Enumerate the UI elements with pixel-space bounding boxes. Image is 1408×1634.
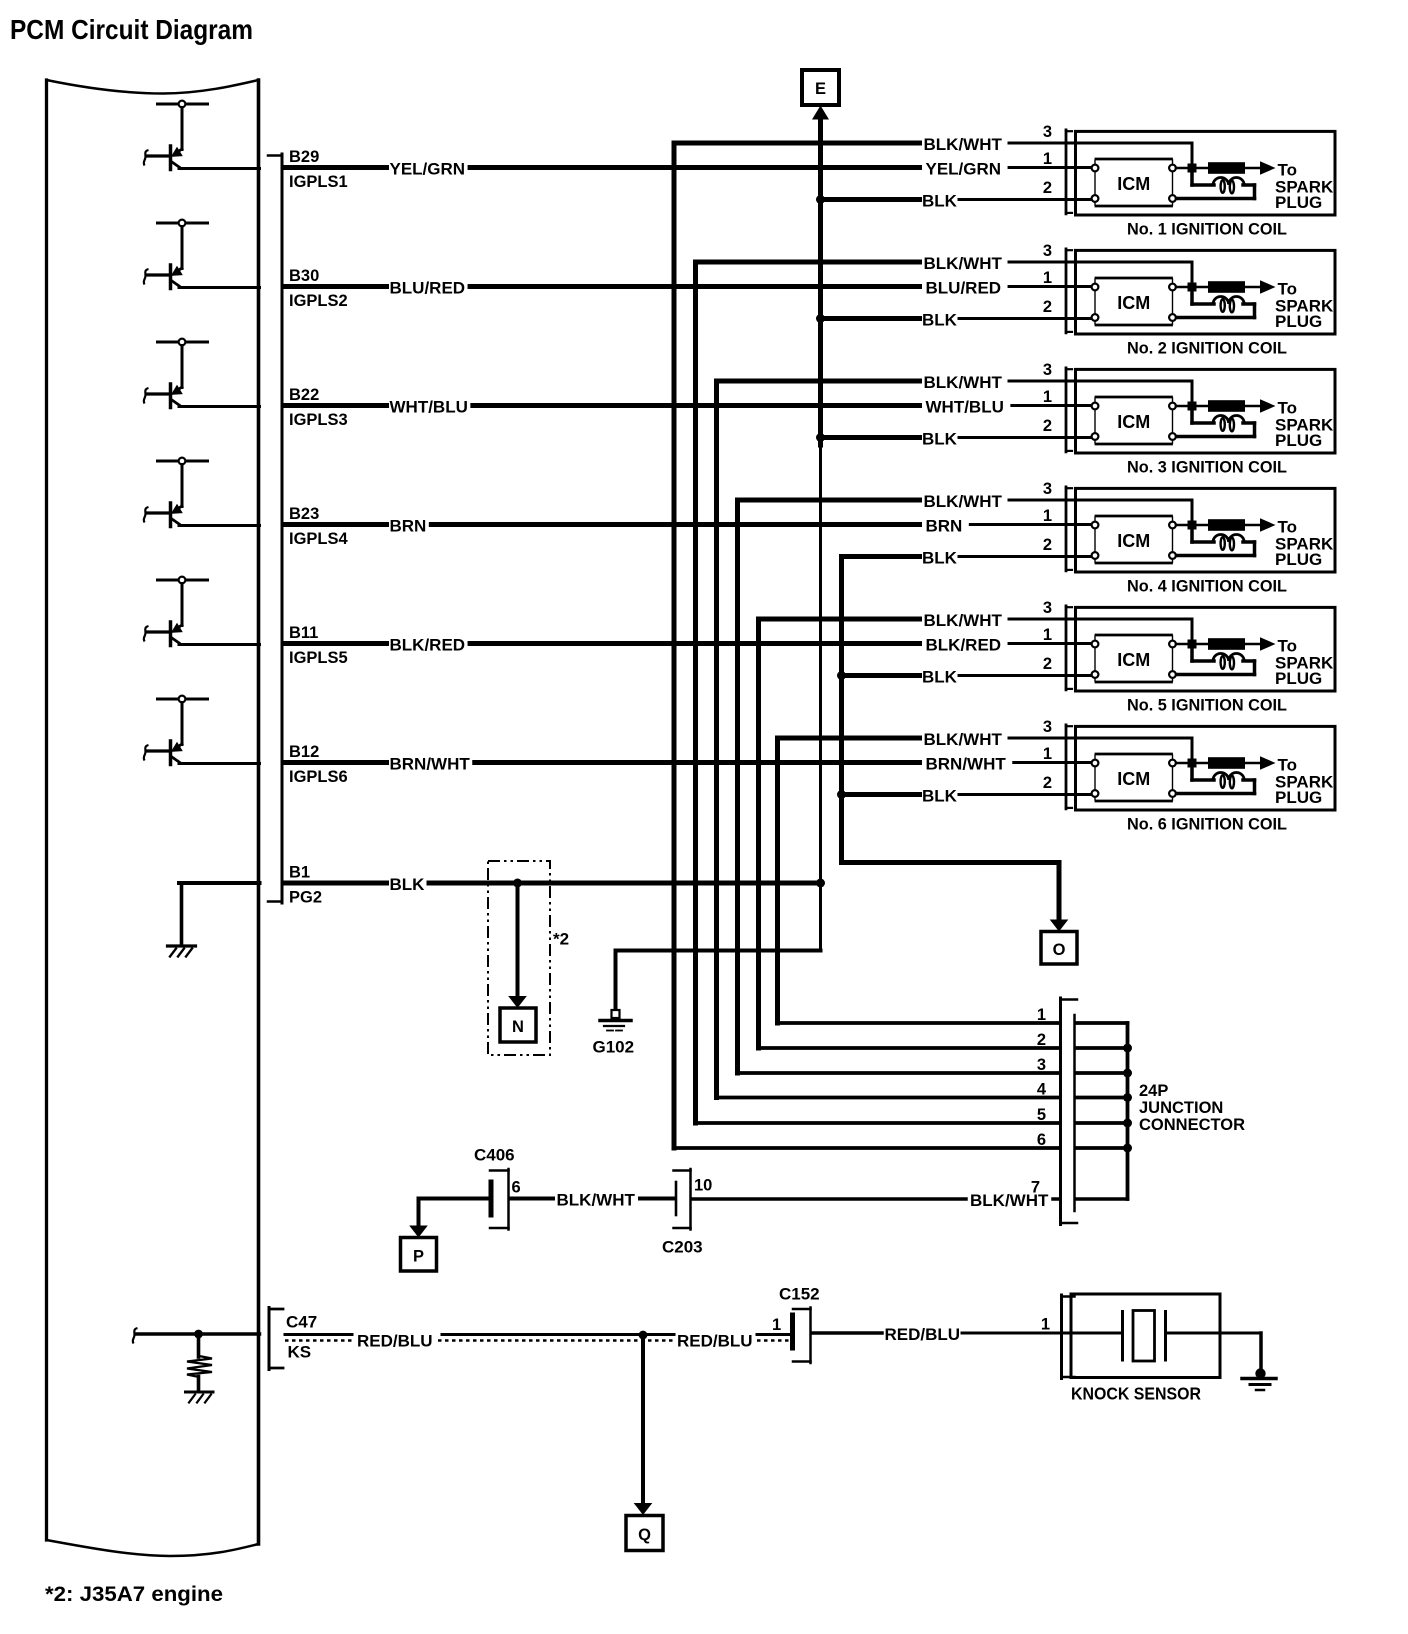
svg-text:No. 2 IGNITION COIL: No. 2 IGNITION COIL: [1127, 338, 1287, 357]
svg-text:BLK/WHT: BLK/WHT: [924, 135, 1003, 154]
svg-text:BLK: BLK: [922, 549, 958, 568]
svg-text:No. 1 IGNITION COIL: No. 1 IGNITION COIL: [1127, 219, 1287, 238]
svg-text:JUNCTION: JUNCTION: [1139, 1099, 1223, 1117]
svg-text:3: 3: [1043, 480, 1052, 498]
svg-text:BLK/RED: BLK/RED: [926, 636, 1002, 655]
svg-text:BRN/WHT: BRN/WHT: [390, 755, 471, 774]
svg-text:BLK: BLK: [922, 430, 958, 449]
svg-text:BLK/WHT: BLK/WHT: [924, 730, 1003, 749]
svg-text:ICM: ICM: [1117, 412, 1150, 432]
svg-text:2: 2: [1043, 417, 1052, 435]
svg-text:IGPLS3: IGPLS3: [289, 411, 348, 429]
svg-text:7: 7: [1031, 1179, 1040, 1197]
svg-text:PLUG: PLUG: [1275, 193, 1322, 212]
svg-text:PLUG: PLUG: [1275, 550, 1322, 569]
svg-text:No. 6 IGNITION COIL: No. 6 IGNITION COIL: [1127, 814, 1287, 833]
svg-text:C203: C203: [662, 1238, 703, 1257]
svg-text:BLK/RED: BLK/RED: [390, 636, 466, 655]
svg-text:2: 2: [1043, 536, 1052, 554]
svg-text:PLUG: PLUG: [1275, 669, 1322, 688]
svg-text:5: 5: [1037, 1106, 1046, 1124]
svg-text:6: 6: [512, 1179, 521, 1197]
svg-text:3: 3: [1043, 361, 1052, 379]
svg-text:1: 1: [1043, 388, 1052, 406]
svg-text:ICM: ICM: [1117, 174, 1150, 194]
svg-text:C152: C152: [779, 1285, 820, 1304]
svg-text:BLK: BLK: [922, 311, 958, 330]
svg-text:WHT/BLU: WHT/BLU: [926, 398, 1004, 417]
svg-text:1: 1: [1041, 1316, 1050, 1334]
svg-text:PLUG: PLUG: [1275, 312, 1322, 331]
svg-text:1: 1: [772, 1316, 781, 1334]
svg-text:B11: B11: [289, 624, 318, 642]
svg-text:3: 3: [1043, 123, 1052, 141]
svg-text:G102: G102: [593, 1038, 635, 1057]
svg-text:1: 1: [1043, 626, 1052, 644]
svg-text:No. 4 IGNITION COIL: No. 4 IGNITION COIL: [1127, 576, 1287, 595]
svg-text:WHT/BLU: WHT/BLU: [390, 398, 468, 417]
svg-text:2: 2: [1043, 774, 1052, 792]
svg-text:IGPLS6: IGPLS6: [289, 768, 348, 786]
svg-text:P: P: [413, 1247, 424, 1265]
svg-text:PLUG: PLUG: [1275, 788, 1322, 807]
svg-text:6: 6: [1037, 1131, 1046, 1149]
svg-text:KNOCK SENSOR: KNOCK SENSOR: [1071, 1384, 1201, 1404]
svg-text:1: 1: [1037, 1006, 1046, 1024]
svg-text:BLK: BLK: [390, 875, 426, 894]
svg-text:BLU/RED: BLU/RED: [926, 279, 1002, 298]
svg-text:BLK/WHT: BLK/WHT: [557, 1191, 636, 1210]
svg-text:ICM: ICM: [1117, 650, 1150, 670]
svg-text:O: O: [1053, 941, 1066, 959]
svg-text:ICM: ICM: [1117, 293, 1150, 313]
svg-text:2: 2: [1037, 1031, 1046, 1049]
svg-text:2: 2: [1043, 298, 1052, 316]
svg-text:1: 1: [1043, 745, 1052, 763]
svg-text:PLUG: PLUG: [1275, 431, 1322, 450]
svg-text:YEL/GRN: YEL/GRN: [926, 160, 1002, 179]
svg-text:1: 1: [1043, 269, 1052, 287]
svg-text:BLK: BLK: [922, 668, 958, 687]
svg-text:Q: Q: [638, 1526, 651, 1544]
svg-text:BLU/RED: BLU/RED: [390, 279, 466, 298]
svg-text:No. 5 IGNITION COIL: No. 5 IGNITION COIL: [1127, 695, 1287, 714]
svg-text:RED/BLU: RED/BLU: [357, 1332, 433, 1351]
svg-text:B12: B12: [289, 743, 319, 761]
svg-text:C47: C47: [286, 1313, 317, 1332]
svg-text:IGPLS1: IGPLS1: [289, 173, 348, 191]
svg-text:CONNECTOR: CONNECTOR: [1139, 1116, 1245, 1134]
svg-text:RED/BLU: RED/BLU: [885, 1325, 961, 1344]
svg-text:BLK: BLK: [922, 787, 958, 806]
svg-text:C406: C406: [474, 1146, 515, 1165]
svg-text:RED/BLU: RED/BLU: [677, 1332, 753, 1351]
svg-text:*2: J35A7 engine: *2: J35A7 engine: [45, 1583, 223, 1606]
svg-text:B29: B29: [289, 148, 319, 166]
svg-text:BRN: BRN: [926, 517, 963, 536]
svg-text:BLK/WHT: BLK/WHT: [924, 492, 1003, 511]
svg-text:E: E: [815, 80, 826, 98]
svg-text:ICM: ICM: [1117, 531, 1150, 551]
svg-text:PG2: PG2: [289, 889, 322, 907]
svg-text:3: 3: [1043, 599, 1052, 617]
svg-text:B1: B1: [289, 864, 310, 882]
svg-text:4: 4: [1037, 1081, 1047, 1099]
svg-text:3: 3: [1043, 718, 1052, 736]
svg-text:BRN: BRN: [390, 517, 427, 536]
svg-text:10: 10: [694, 1177, 712, 1195]
svg-text:2: 2: [1043, 179, 1052, 197]
svg-text:N: N: [512, 1018, 524, 1036]
svg-text:1: 1: [1043, 507, 1052, 525]
svg-text:BLK: BLK: [922, 192, 958, 211]
svg-text:BLK/WHT: BLK/WHT: [924, 373, 1003, 392]
svg-text:No. 3 IGNITION COIL: No. 3 IGNITION COIL: [1127, 457, 1287, 476]
svg-text:IGPLS2: IGPLS2: [289, 292, 348, 310]
svg-text:3: 3: [1043, 242, 1052, 260]
svg-text:B23: B23: [289, 505, 319, 523]
svg-text:1: 1: [1043, 150, 1052, 168]
svg-text:*2: *2: [553, 930, 569, 949]
svg-text:ICM: ICM: [1117, 769, 1150, 789]
svg-text:B22: B22: [289, 386, 319, 404]
svg-text:2: 2: [1043, 655, 1052, 673]
svg-text:YEL/GRN: YEL/GRN: [390, 160, 466, 179]
svg-text:B30: B30: [289, 267, 319, 285]
svg-text:IGPLS5: IGPLS5: [289, 649, 348, 667]
svg-text:3: 3: [1037, 1056, 1046, 1074]
svg-text:24P: 24P: [1139, 1082, 1168, 1100]
svg-text:IGPLS4: IGPLS4: [289, 530, 349, 548]
svg-text:BLK/WHT: BLK/WHT: [924, 254, 1003, 273]
svg-text:KS: KS: [288, 1343, 312, 1362]
svg-text:PCM Circuit Diagram: PCM Circuit Diagram: [10, 14, 253, 45]
svg-text:BRN/WHT: BRN/WHT: [926, 755, 1007, 774]
svg-text:BLK/WHT: BLK/WHT: [924, 611, 1003, 630]
